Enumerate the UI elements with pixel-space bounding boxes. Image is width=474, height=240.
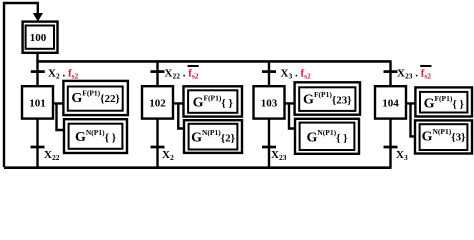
step 104 bbox=[375, 86, 406, 118]
divergence line (OR branch) bbox=[36, 60, 391, 63]
wire action bracket step102 bbox=[173, 103, 184, 128]
wire branch 4 vertical bottom bbox=[389, 119, 391, 168]
step 103 bbox=[254, 86, 285, 118]
action block G N(P1){ } of step 103 bbox=[295, 119, 359, 154]
wire feedback loop (left return path) bbox=[4, 3, 38, 167]
svg-text:X2: X2 bbox=[162, 149, 174, 162]
svg-text:X3: X3 bbox=[396, 149, 408, 162]
svg-text:GF(P1){23}: GF(P1){23} bbox=[303, 90, 351, 107]
svg-text:X22 . fs2: X22 . fs2 bbox=[165, 68, 199, 81]
transition tick X23 (bottom branch 3) bbox=[262, 146, 276, 149]
action block G N(P1){2} of step 102 bbox=[184, 120, 242, 153]
transition label X22 bbox=[44, 149, 60, 162]
transition tick X3.fs2 bbox=[262, 70, 276, 73]
svg-text:GF(P1){ }: GF(P1){ } bbox=[193, 93, 233, 110]
wire branch 1 vertical bottom bbox=[36, 119, 38, 168]
svg-text:GN(P1){2}: GN(P1){2} bbox=[191, 128, 235, 145]
wire action bracket step101 bbox=[53, 103, 64, 130]
transition label X23 . not-fs2 bbox=[397, 66, 431, 81]
step 101 bbox=[22, 86, 53, 118]
svg-text:X23: X23 bbox=[271, 149, 287, 162]
svg-text:X3 . fs2: X3 . fs2 bbox=[281, 68, 312, 81]
wire branch 2 vertical bottom bbox=[156, 119, 158, 168]
transition label X2 . fs2 bbox=[48, 68, 79, 81]
action block G N(P1){3} of step 104 bbox=[415, 120, 472, 153]
wire step100 down to step101 (branch 1 vertical) bbox=[36, 53, 38, 87]
action block G F(P1){22} of step 101 bbox=[63, 81, 128, 115]
svg-text:104: 104 bbox=[382, 97, 399, 109]
svg-text:GN(P1){ }: GN(P1){ } bbox=[306, 128, 347, 145]
transition label X23 bbox=[271, 149, 287, 162]
transition label X2 bbox=[162, 149, 174, 162]
svg-text:102: 102 bbox=[149, 97, 166, 109]
svg-text:GF(P1){22}: GF(P1){22} bbox=[71, 89, 119, 106]
wire branch 4 vertical top bbox=[389, 61, 391, 87]
svg-text:X22: X22 bbox=[44, 149, 60, 162]
transition tick X22.not-fs2 bbox=[151, 70, 165, 73]
transition tick X23.not-fs2 bbox=[384, 70, 398, 73]
wire action bracket step104 bbox=[406, 103, 415, 136]
action block G N(P1){ } of step 101 bbox=[64, 119, 127, 153]
svg-text:GN(P1){3}: GN(P1){3} bbox=[422, 127, 466, 144]
initial step 100 (double border) bbox=[23, 22, 58, 53]
action block G F(P1){ } of step 104 bbox=[415, 87, 472, 116]
transition label X3 bbox=[396, 149, 408, 162]
svg-text:100: 100 bbox=[30, 32, 47, 44]
convergence line (bottom return) bbox=[4, 166, 392, 169]
transition label X22 . not-fs2 bbox=[165, 66, 199, 81]
transition tick X3 (bottom branch 4) bbox=[384, 146, 398, 149]
wire branch 2 vertical top bbox=[156, 61, 158, 87]
transition tick X2 (bottom branch 2) bbox=[151, 146, 165, 149]
wire branch 3 vertical bottom bbox=[268, 119, 270, 168]
transition label X3 . fs2 bbox=[281, 68, 312, 81]
step 102 bbox=[142, 86, 173, 118]
wire action bracket step103 bbox=[285, 103, 296, 128]
svg-text:101: 101 bbox=[29, 97, 46, 109]
transition tick X2.fs2 bbox=[31, 70, 45, 73]
svg-text:GF(P1){ }: GF(P1){ } bbox=[424, 94, 464, 111]
svg-text:X23 . fs2: X23 . fs2 bbox=[397, 68, 431, 81]
action block G F(P1){ } of step 102 bbox=[184, 86, 243, 116]
wire branch 3 vertical top bbox=[268, 61, 270, 87]
svg-text:103: 103 bbox=[261, 97, 278, 109]
arrow into initial step 100 bbox=[33, 13, 43, 22]
svg-text:X2 . fs2: X2 . fs2 bbox=[48, 68, 79, 81]
transition tick X22 (bottom branch 1) bbox=[31, 146, 45, 149]
svg-text:GN(P1){ }: GN(P1){ } bbox=[75, 128, 116, 145]
action block G F(P1){23} of step 103 bbox=[295, 82, 360, 114]
